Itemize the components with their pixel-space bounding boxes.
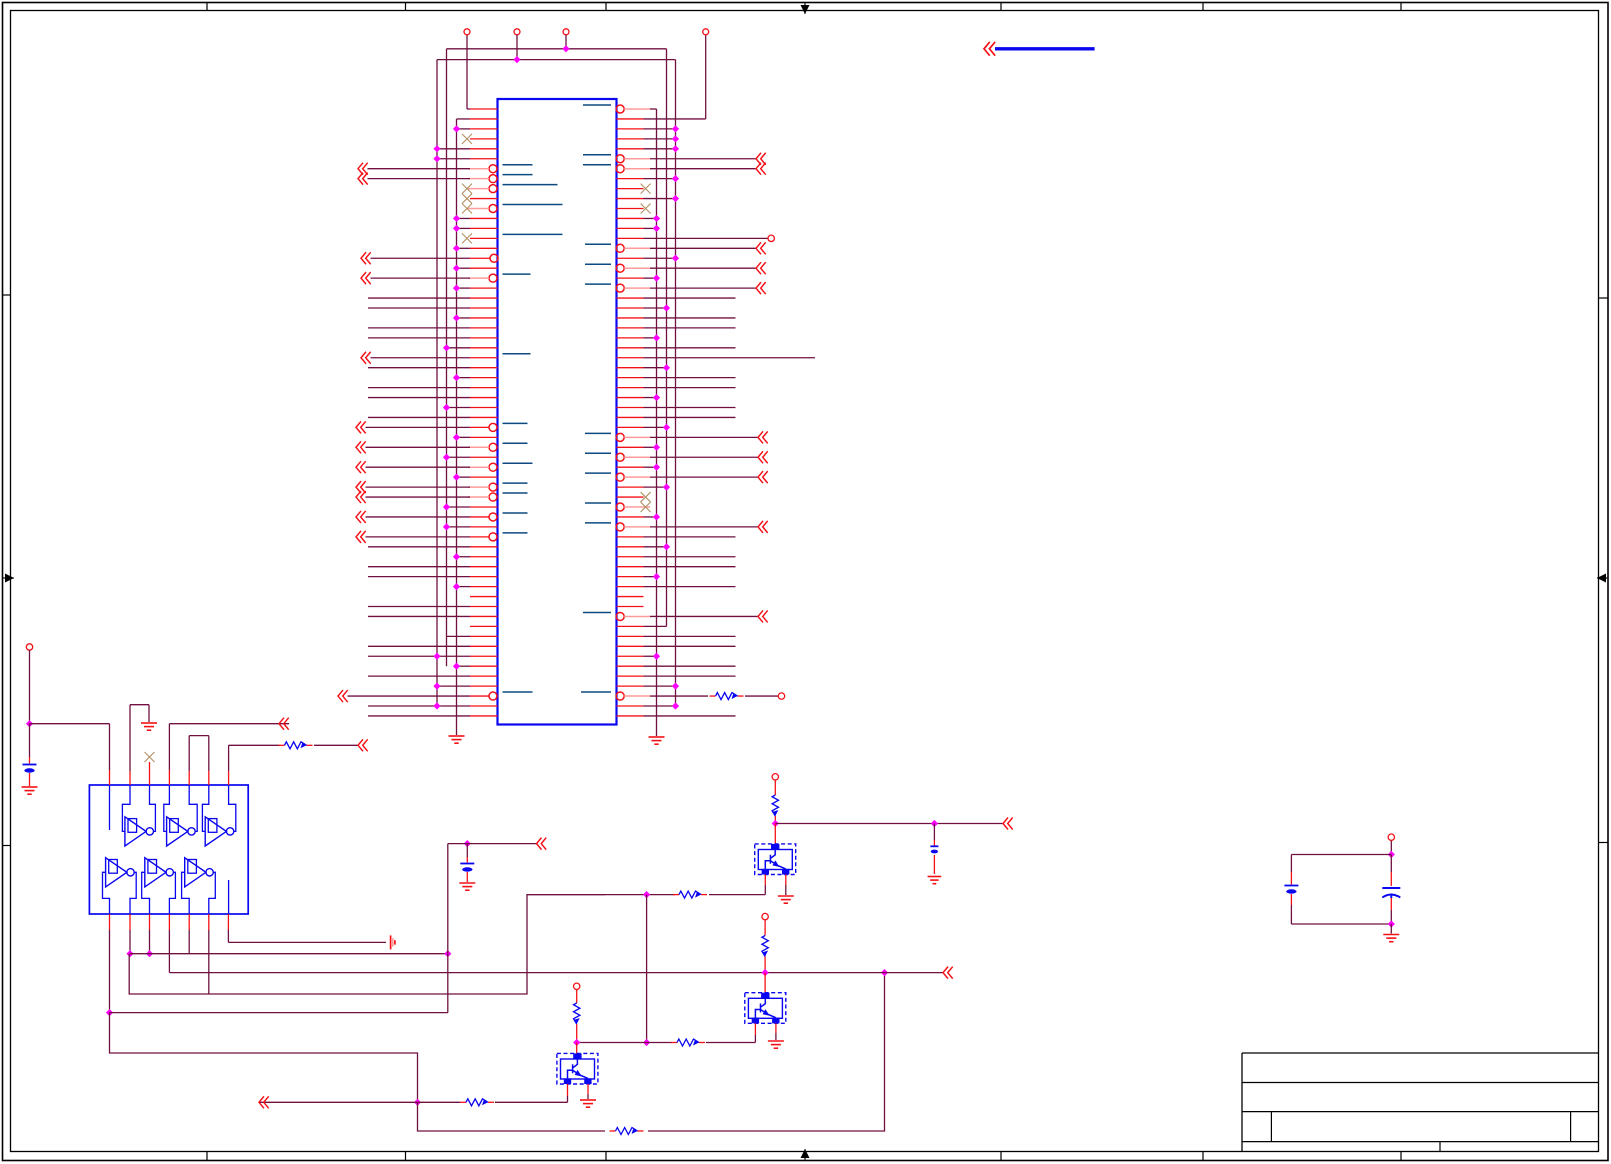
wire branch to y1131 — [418, 1102, 606, 1131]
U2 inverter C — [205, 817, 226, 846]
resistor R4 — [764, 930, 766, 936]
U1 right pin row 1 — [583, 105, 657, 113]
wire bottom of loop — [1291, 923, 1391, 925]
wire y1012 to right — [110, 1012, 449, 1014]
junction far left — [26, 720, 33, 727]
wire Q2 collector — [764, 973, 766, 993]
wire C5 down — [1390, 898, 1392, 910]
U2 pin bottom 2 — [129, 914, 131, 930]
wire C1 to ground — [29, 773, 31, 786]
capacitor C5 — [1382, 887, 1400, 889]
U1 left pin row 50 — [470, 596, 498, 598]
offpage chevron R1 — [358, 739, 368, 751]
U1 left pin row 62 — [368, 715, 498, 717]
wire R5 to Q2 — [706, 1042, 755, 1044]
capacitor C3 — [930, 845, 938, 847]
U1 left pin row 61 — [368, 702, 498, 709]
wire R3 to Q1 — [709, 894, 765, 896]
wire pin2 branch y994 — [129, 895, 605, 994]
U1 left pin row 57 — [453, 663, 498, 670]
wire Q2 emitter down — [754, 1023, 756, 1035]
U1 right pin row 28 — [617, 377, 736, 379]
U1 left pin row 1 — [464, 29, 498, 109]
wire y1102 to chevron — [259, 1101, 418, 1103]
U1 right pin row 34 — [585, 431, 768, 443]
U1 right pin row 3 — [617, 125, 680, 132]
wire vertical bus left x446.5 — [446, 49, 448, 666]
U1 right pin row 38 — [585, 471, 768, 483]
U1 right pin row 53 — [617, 625, 667, 627]
wire R4 to junction — [764, 963, 766, 973]
U1 left pin row 9 — [462, 184, 558, 194]
U1 right pin row 14 — [617, 235, 775, 241]
ground C3 — [928, 876, 942, 878]
ground bottom right — [1383, 934, 1399, 936]
U1 left pin row 10 — [462, 194, 498, 204]
junction P4 net — [1388, 851, 1395, 858]
capacitor C2 — [460, 863, 474, 865]
power terminal P4 right — [1388, 834, 1394, 840]
U1 left pin row 44 — [356, 531, 528, 543]
U1 right pin row 43 — [585, 521, 768, 533]
U1 left pin row 13 — [453, 225, 498, 232]
U2 pin3 top no-connect — [149, 762, 151, 785]
U1 right pin row 17 — [585, 262, 766, 274]
U1 left pin row 55 — [368, 645, 498, 647]
U1 left pin row 47 — [368, 566, 498, 568]
U1 right pin row 15 — [585, 242, 766, 254]
border zone ticks bottom — [206, 1152, 208, 1161]
wire C3 ground — [933, 855, 935, 874]
wire P1 down — [29, 650, 31, 724]
border center arrow top — [801, 5, 810, 14]
no-ERC marker — [390, 935, 392, 949]
U2 inverter A input path — [122, 785, 130, 831]
U2 inverter F — [185, 858, 206, 887]
U1 left pin row 15 — [453, 245, 498, 252]
U1 right pin row 51 — [617, 606, 644, 608]
U1 left pin row 26 — [361, 352, 531, 364]
wire to ground P4 — [1390, 924, 1392, 934]
U2 inverter F output path — [209, 872, 216, 914]
U1 left pin row 4 — [462, 134, 498, 144]
wire top bus y49 — [447, 48, 667, 50]
capacitor C4 — [1284, 885, 1298, 887]
ground Q3 — [580, 1099, 596, 1101]
U1 right pin row 57 — [617, 665, 736, 667]
U2 inverter D output path — [130, 872, 136, 914]
U1 left pin row 39 — [356, 481, 528, 493]
U2 pin bottom 7 stub — [227, 914, 229, 930]
U1 right pin row 32 — [617, 416, 736, 418]
U1 left pin row 43 — [443, 523, 498, 530]
U1 right pin row 18 — [617, 275, 661, 282]
U1 right pin row 25 — [617, 347, 736, 349]
ground C1 — [22, 786, 38, 788]
U1 right pin row 2 — [617, 29, 709, 119]
U1 right pin row 47 — [617, 566, 736, 568]
U1 left pin row 45 — [368, 546, 498, 548]
wire Q3 pullup — [576, 990, 578, 997]
U1 left pin row 40 — [356, 491, 528, 503]
wire vertical bus right x675.5 — [675, 60, 677, 706]
U2 inverter D — [106, 858, 127, 887]
U2 inverter B input path — [164, 785, 170, 831]
terminal right of R8 — [778, 693, 784, 699]
U1 right pin row 24 — [617, 334, 661, 341]
U1 left pin row 2 — [457, 118, 498, 120]
U1 right pin row 16 — [617, 255, 680, 262]
inverter IC U2 body — [89, 785, 248, 914]
wire vertical bus right x666.5 — [666, 49, 668, 627]
wire y894 Q1 base line — [527, 894, 675, 896]
U1 right pin row 27 — [617, 364, 671, 371]
transistor Q1 package — [755, 844, 796, 875]
wire top bus y60 — [437, 59, 676, 61]
wire C2 ground — [466, 872, 468, 882]
U2 pin5-pin6 top loop — [188, 771, 190, 785]
U1 right pin row 36 — [585, 451, 768, 463]
U1 left pin row 51 — [368, 606, 498, 608]
U2 pin bottom 4 net — [168, 914, 170, 930]
offpage chevron y972 — [943, 967, 953, 979]
ground Q1 — [778, 895, 794, 897]
bus entry chevron top right — [984, 42, 995, 56]
U1 right pin row 12 — [617, 215, 661, 222]
U2 pin bottom 6 — [208, 914, 210, 930]
U1 left pin row 27 — [368, 367, 498, 369]
U1 right pin row 49 — [617, 586, 736, 588]
U1 left pin row 52 — [368, 615, 498, 617]
wire y1042 Q2 base line — [577, 1042, 672, 1044]
U1 left pin row 28 — [453, 374, 498, 381]
U1 left pin row 33 — [356, 421, 528, 433]
U1 right pin row 46 — [617, 556, 736, 558]
junction cap C3 — [931, 820, 938, 827]
wire top of C4 loop — [1291, 854, 1391, 856]
junction chevron line — [464, 840, 471, 847]
wire Q1 emitter to y894 — [764, 875, 766, 886]
wire R2 to junction — [774, 822, 776, 824]
bus thick blue top right — [995, 47, 1095, 50]
U1 left pin row 60 — [338, 690, 533, 702]
power terminal P3 — [563, 29, 569, 35]
U1 right pin row 6 — [583, 153, 766, 165]
U1 right pin row 9 — [617, 184, 651, 194]
wire far-left cap branch — [29, 724, 31, 757]
U1 left pin row 59 — [433, 683, 497, 690]
U1 right pin row 10 — [617, 195, 680, 202]
junction Q2 collector net — [762, 969, 769, 976]
U1 right pin row 58 — [617, 675, 736, 677]
border center arrow left — [5, 574, 14, 583]
junction Q1 collector net — [772, 820, 779, 827]
power terminal P2 — [514, 29, 520, 35]
power terminal Q2 — [762, 913, 768, 919]
wire y972 Q2 base — [169, 972, 943, 974]
U1 right pin row 8 — [617, 175, 680, 182]
wire vertical bus right x656.5 — [656, 109, 658, 736]
resistor R5 — [671, 1042, 677, 1044]
U1 left pin row 21 — [368, 307, 498, 309]
U1 right pin row 48 — [617, 573, 661, 580]
resistor R9 — [460, 1101, 466, 1103]
wire vertical bus left x456.5 — [456, 119, 458, 735]
U1 left pin row 17 — [453, 265, 498, 272]
border zone ticks top — [206, 3, 208, 11]
power terminal Q3 — [574, 983, 580, 989]
border center arrow right — [1597, 574, 1606, 583]
connector U1 body — [498, 99, 617, 725]
ground right bus — [649, 736, 665, 738]
U1 right pin row 60 — [581, 692, 708, 700]
U1 left pin row 35 — [356, 441, 528, 453]
U2 inverter E input path — [142, 872, 150, 914]
junction y1042 left — [643, 1039, 650, 1046]
U1 left pin row 11 — [462, 204, 563, 214]
U1 right pin row 41 — [585, 502, 651, 512]
U1 left pin row 34 — [453, 434, 498, 441]
transistor Q1 symbol — [765, 850, 785, 869]
ground Q2 — [768, 1040, 784, 1042]
wire R1 to chevron — [314, 744, 358, 746]
border zone ticks left — [3, 294, 11, 296]
U1 left pin row 25 — [443, 344, 498, 351]
U1 right pin row 45 — [617, 543, 671, 550]
U1 left pin row 38 — [453, 474, 498, 481]
U1 left pin row 48 — [368, 576, 498, 578]
U2 pin7 inside stub — [228, 880, 230, 914]
U1 left pin row 24 — [368, 337, 498, 339]
U1 right pin row 42 — [617, 513, 661, 520]
wire right branch down — [1390, 855, 1392, 873]
wire Q2 pullup — [764, 920, 766, 929]
U1 left pin row 20 — [368, 297, 498, 299]
U2 pin bottom 3 — [149, 914, 151, 930]
U1 right pin row 30 — [617, 394, 661, 401]
wire left branch down — [1290, 855, 1292, 873]
U1 right pin row 4 — [617, 135, 680, 142]
U2 inverter F input path — [182, 872, 190, 914]
resistor R8 — [710, 695, 716, 697]
junction Q2 base net right — [881, 969, 888, 976]
wire y954 vertical to chevron line — [447, 844, 449, 1013]
U1 left pin row 56 — [368, 653, 498, 660]
wire y844 to chevron — [448, 843, 537, 845]
wire R8 to terminal — [745, 695, 778, 697]
U1 right pin row 22 — [617, 317, 736, 319]
U1 right pin row 13 — [617, 225, 661, 232]
junction Q3 collector net — [573, 1039, 580, 1046]
border zone ticks right — [1599, 297, 1609, 299]
resistor R7 — [610, 1130, 616, 1132]
U2 inverter D input path — [103, 872, 110, 914]
U1 right pin row 50 — [617, 596, 644, 598]
transistor Q2 symbol — [755, 998, 775, 1017]
U1 left pin row 32 — [368, 416, 498, 418]
power terminal Q1 — [772, 774, 778, 780]
resistor R2 — [774, 789, 776, 795]
U1 left pin row 46 — [453, 553, 498, 560]
U1 right pin row 19 — [585, 282, 766, 294]
title block — [1242, 1052, 1599, 1054]
U1 right pin row 31 — [617, 407, 736, 409]
U1 right pin row 44 — [617, 536, 736, 538]
U1 left pin row 54 — [447, 635, 498, 637]
wire far-left horizontal y724 — [30, 723, 110, 725]
U1 right pin row 61 — [617, 702, 680, 709]
U1 left pin row 14 — [462, 233, 563, 243]
U1 left pin row 19 — [453, 285, 498, 292]
U1 left pin row 58 — [368, 675, 498, 677]
U1 right pin row 59 — [617, 683, 680, 690]
U1 right pin row 23 — [617, 327, 736, 329]
U1 right pin row 29 — [617, 387, 736, 389]
U2 inverter A — [125, 817, 146, 846]
U2 pin14 inside stub — [109, 785, 111, 830]
U1 left pin row 36 — [443, 454, 498, 461]
wire y954 — [130, 953, 448, 955]
U1 right pin row 37 — [617, 464, 661, 471]
offpage chevron y823 — [1003, 818, 1013, 830]
wire R7 to corner — [648, 973, 885, 1131]
transistor Q3 package — [557, 1053, 598, 1084]
U2 pin4 top wire to chevron — [168, 770, 170, 785]
U1 right pin row 39 — [617, 484, 671, 491]
offpage chevron y1102 — [259, 1096, 269, 1108]
U2 pin7 top wire — [228, 771, 230, 785]
ground left bus — [449, 735, 465, 737]
power terminal P1 far left — [26, 644, 32, 650]
ground C2 — [459, 882, 475, 884]
U2 inverter E output path — [169, 872, 175, 914]
resistor R3 — [673, 894, 679, 896]
U2 inverter C input path — [202, 785, 208, 831]
U2 inverter B output path — [189, 785, 197, 831]
U1 left pin row 22 — [453, 314, 498, 321]
wire vertical bus left x437 — [436, 60, 438, 706]
wire y1102 right part — [418, 1101, 461, 1103]
U1 left pin row 16 — [361, 252, 498, 264]
junction bottom right — [1388, 920, 1395, 927]
U1 right pin row 20 — [617, 297, 736, 299]
transistor Q2 package — [745, 993, 786, 1024]
wire pin7 to stub end — [228, 941, 386, 943]
junction y954 right — [444, 950, 451, 957]
U1 left pin row 49 — [453, 583, 498, 590]
U1 left pin row 18 — [361, 272, 531, 284]
U1 left pin row 23 — [368, 327, 498, 329]
U2 inverter A output path — [150, 785, 156, 831]
wire Q3 collector — [576, 1043, 578, 1054]
U2 pin bottom 1 net — [109, 914, 111, 930]
U1 left pin row 53 — [470, 625, 498, 627]
wire C3 branch — [933, 824, 935, 841]
U2 pin bottom 5 — [188, 914, 190, 930]
U1 right pin row 7 — [583, 163, 766, 175]
resistor R1 — [279, 744, 285, 746]
U1 left pin row 5 — [433, 145, 497, 152]
U1 right pin row 21 — [617, 304, 671, 311]
wire Q1 collector — [774, 824, 776, 844]
wire link y894-y1042 — [646, 895, 648, 1043]
wire R9 to Q3 — [495, 1101, 568, 1103]
U1 right pin row 35 — [617, 444, 661, 451]
offpage chevron U2 pin4 — [279, 718, 289, 730]
offpage chevron y844 — [537, 838, 547, 850]
junction y894 — [643, 891, 650, 898]
U1 left pin row 30 — [368, 397, 498, 399]
wire Q3 emitter down — [567, 1084, 569, 1096]
U2 inverter B — [167, 817, 188, 846]
U1 right pin row 54 — [617, 635, 736, 637]
capacitor C1 — [23, 764, 37, 766]
U1 right pin row 33 — [617, 424, 671, 431]
wire R6 to junction — [576, 1030, 578, 1043]
border center arrow bottom — [801, 1149, 810, 1158]
wire cap C2 branch — [466, 844, 468, 857]
U1 left pin row 29 — [368, 387, 498, 389]
U1 right pin row 26 — [617, 357, 816, 359]
U2 pin2 top to ground U — [129, 771, 131, 785]
U1 left pin row 42 — [356, 511, 528, 523]
wire Q2 BR ground — [775, 1023, 777, 1033]
U1 left pin row 41 — [443, 503, 498, 510]
U1 right pin row 40 — [617, 492, 651, 502]
U2 inverter C output path — [229, 785, 236, 831]
ground mid U2 — [141, 722, 157, 724]
U1 right pin row 52 — [583, 610, 768, 622]
U2 pin1 top wire from P1 net — [109, 724, 111, 770]
U1 right pin row 5 — [617, 145, 680, 152]
wire Q3 BR ground — [587, 1084, 589, 1094]
wire y823 to chevron — [775, 823, 1003, 825]
junction y1102 — [414, 1099, 421, 1106]
wire Q1 pullup — [774, 780, 776, 789]
U1 left pin row 7 — [358, 163, 533, 175]
U2 inverter E — [145, 858, 166, 887]
U1 right pin row 56 — [617, 653, 661, 660]
U1 right pin row 55 — [617, 645, 736, 647]
wire C4 down — [1290, 894, 1292, 905]
U1 left pin row 37 — [356, 461, 533, 473]
resistor R6 — [576, 997, 578, 1003]
transistor Q3 symbol — [568, 1059, 588, 1078]
U1 left pin row 6 — [433, 155, 497, 162]
U1 left pin row 12 — [453, 215, 498, 222]
U1 left pin row 3 — [453, 125, 498, 132]
U1 right pin row 62 — [617, 715, 736, 717]
wire Q1 BR to ground — [785, 875, 787, 886]
U1 left pin row 8 — [358, 173, 533, 185]
wire pin1 branch down — [110, 1013, 418, 1103]
U1 right pin row 11 — [617, 204, 651, 214]
U1 left pin row 31 — [443, 404, 498, 411]
wire P4 down — [1390, 841, 1392, 855]
